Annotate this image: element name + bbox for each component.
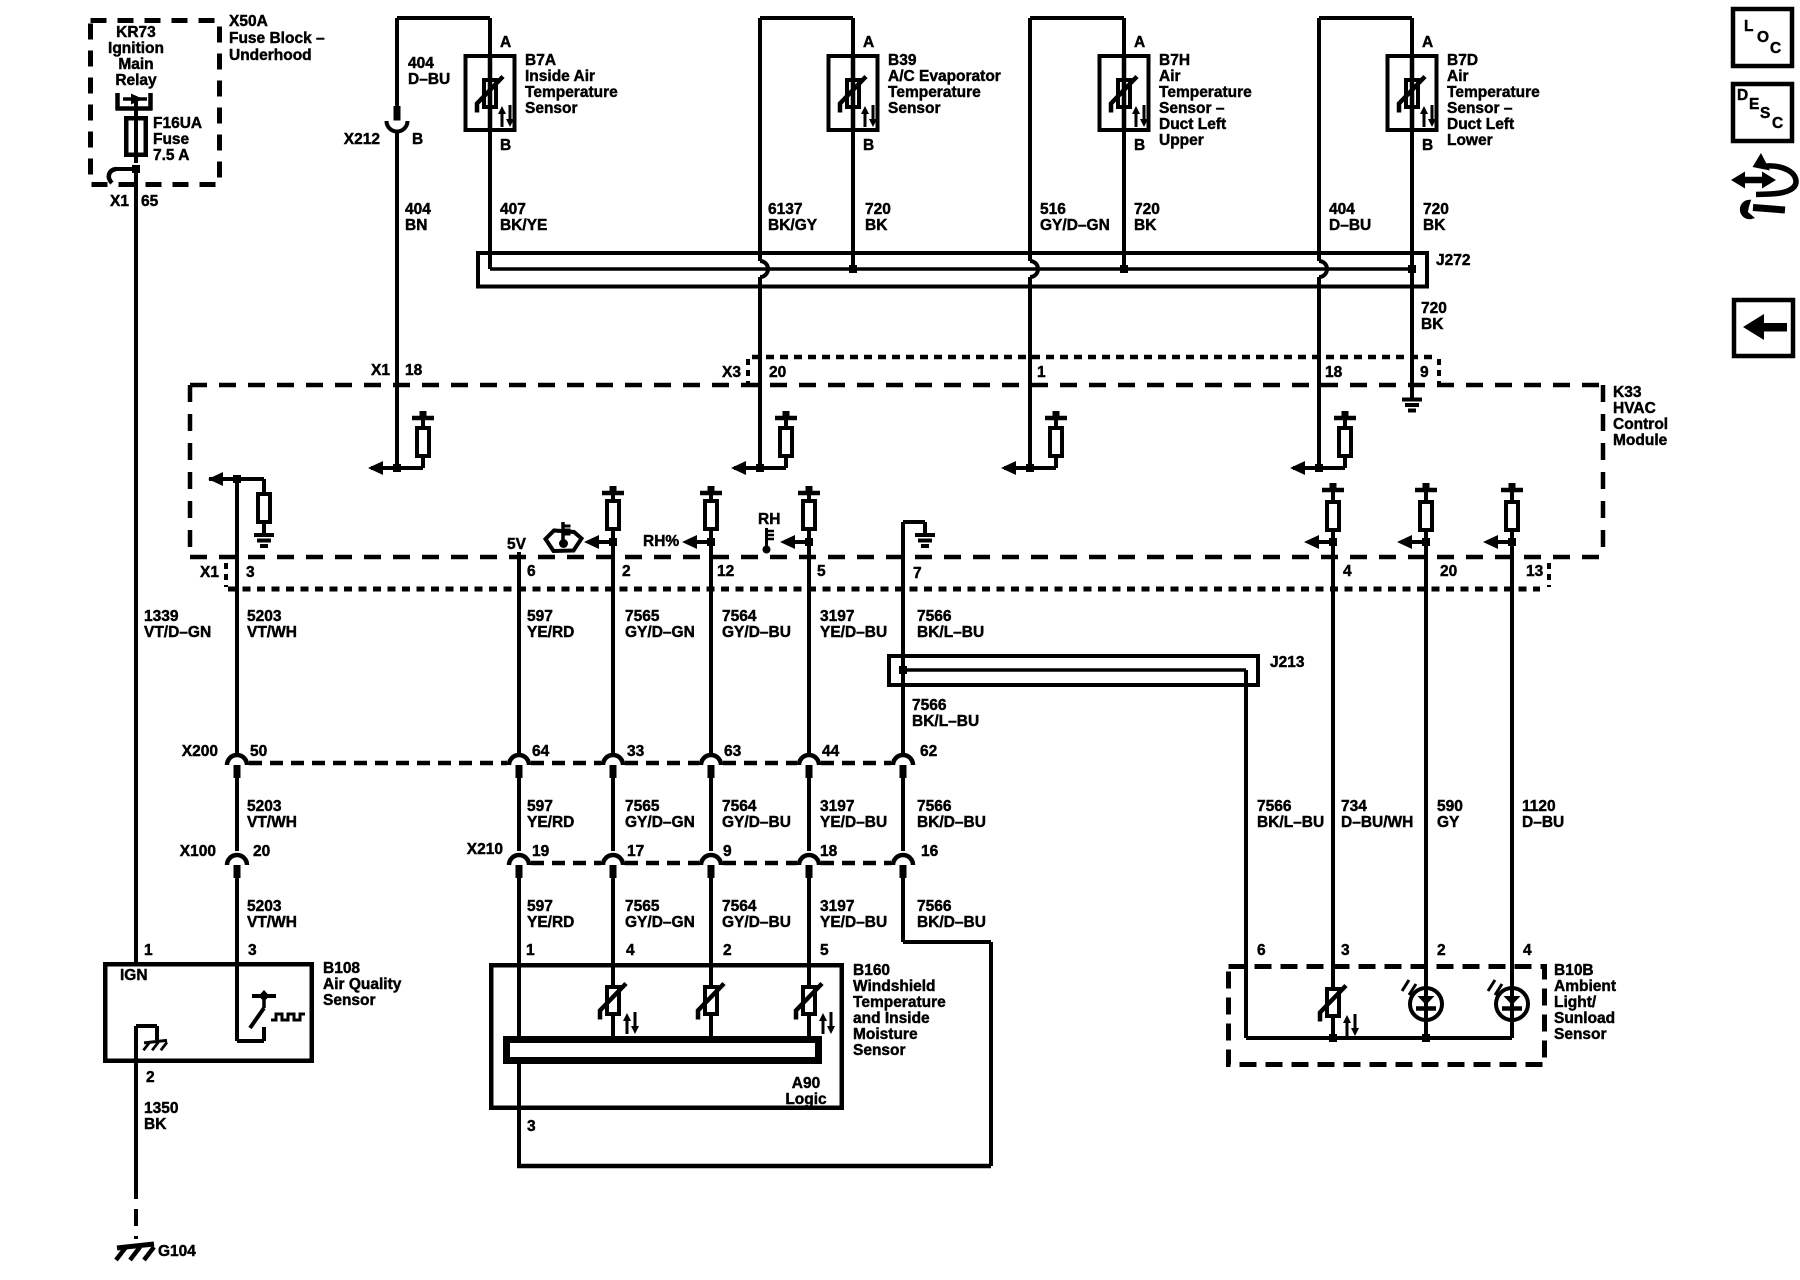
svg-text:G104: G104 (158, 1243, 196, 1260)
svg-text:Air: Air (1447, 68, 1469, 85)
svg-text:404: 404 (405, 201, 431, 218)
svg-text:B: B (412, 131, 423, 148)
wire B7H pin A (1122, 18, 1126, 54)
wire 597 YE/RD middle (517, 778, 521, 851)
svg-text:64: 64 (532, 743, 550, 760)
input w/ pull-up X3-18 (1317, 385, 1321, 468)
svg-text:and Inside: and Inside (853, 1010, 930, 1027)
component B10B dashed box (1229, 967, 1545, 1065)
svg-text:1: 1 (144, 942, 153, 959)
svg-text:17: 17 (627, 843, 644, 860)
temperature sensor B7A (466, 56, 515, 130)
pull-down w/ ground X1-3 (209, 477, 264, 481)
wire 404 D-BU right top corner (1319, 16, 1412, 20)
svg-text:A/C Evaporator: A/C Evaporator (888, 68, 1001, 85)
svg-text:7564: 7564 (722, 798, 757, 815)
inline connector X212 (394, 106, 401, 121)
svg-text:C: C (1772, 115, 1783, 132)
component B160 box (491, 965, 842, 1108)
svg-text:Sensor –: Sensor – (1447, 100, 1513, 117)
svg-text:Duct Left: Duct Left (1447, 116, 1514, 133)
svg-text:720: 720 (1134, 201, 1160, 218)
svg-text:13: 13 (1526, 563, 1544, 580)
svg-text:7566: 7566 (917, 898, 952, 915)
thermistor symbol B7D (1406, 80, 1418, 107)
svg-text:YE/RD: YE/RD (527, 914, 574, 931)
wire 720 BK to ground pin (1410, 269, 1414, 385)
svg-text:3197: 3197 (820, 798, 854, 815)
svg-text:7566: 7566 (1257, 798, 1292, 815)
svg-text:GY/D–GN: GY/D–GN (625, 914, 695, 931)
wire 734 D-BU/WH (1331, 557, 1335, 964)
svg-text:5: 5 (820, 942, 829, 959)
connector X200 pin 62 (893, 755, 913, 765)
svg-text:YE/RD: YE/RD (527, 624, 574, 641)
svg-text:GY/D–GN: GY/D–GN (1040, 217, 1110, 234)
svg-text:19: 19 (532, 843, 550, 860)
wire 7564 GY/D-BU lower (709, 878, 713, 985)
svg-text:Air: Air (1159, 68, 1181, 85)
svg-text:Upper: Upper (1159, 132, 1204, 149)
svg-text:20: 20 (1440, 563, 1457, 580)
svg-text:X200: X200 (182, 743, 218, 760)
wire B7D pin A (1410, 18, 1414, 54)
svg-text:YE/D–BU: YE/D–BU (820, 624, 887, 641)
svg-text:3: 3 (248, 942, 257, 959)
svg-text:GY/D–BU: GY/D–BU (722, 624, 791, 641)
svg-text:Underhood: Underhood (229, 47, 312, 64)
connector X210 line (531, 861, 601, 866)
connector X100 pin 20 (227, 855, 247, 865)
svg-text:6: 6 (527, 563, 536, 580)
svg-text:9: 9 (723, 843, 732, 860)
svg-text:KR73: KR73 (116, 24, 156, 41)
wire 6137 BK/GY top corner (760, 16, 853, 20)
icon LOC box (1733, 9, 1792, 66)
junction dot B10B thermistor (1329, 1034, 1337, 1042)
svg-text:VT/WH: VT/WH (247, 914, 297, 931)
svg-text:A: A (500, 34, 511, 51)
svg-text:Sunload: Sunload (1554, 1010, 1615, 1027)
wire 7566 BK/D-BU middle (901, 778, 905, 851)
svg-text:BK/L–BU: BK/L–BU (917, 624, 984, 641)
B10B photodiode 2 (1424, 964, 1428, 1038)
svg-text:BK/D–BU: BK/D–BU (917, 814, 986, 831)
svg-text:Moisture: Moisture (853, 1026, 918, 1043)
svg-text:404: 404 (408, 55, 434, 72)
junction dot J272 B39 (849, 265, 857, 273)
temperature sensor B39 (829, 56, 878, 130)
connector X210 pin 18 (799, 855, 819, 865)
svg-text:B: B (500, 137, 511, 154)
svg-text:7.5 A: 7.5 A (153, 147, 189, 164)
B108 heater square wave (271, 1014, 305, 1020)
svg-text:2: 2 (723, 942, 732, 959)
input pin 2 w/ pull-up (602, 491, 624, 496)
icon transfer arrows and wrench (1744, 177, 1763, 184)
wire 407 BK/YE (488, 132, 492, 269)
thermometer icon RH (765, 528, 768, 546)
junction dot J213 (899, 666, 907, 674)
svg-text:D: D (1737, 87, 1748, 104)
svg-text:50: 50 (250, 743, 267, 760)
wire 720 BK from B7H (1122, 132, 1126, 269)
svg-text:590: 590 (1437, 798, 1463, 815)
component B108 box (105, 964, 312, 1061)
wire 5203 VT/WH lower (235, 878, 239, 962)
svg-text:33: 33 (627, 743, 645, 760)
wire 516 GY/D-GN (1028, 18, 1032, 261)
svg-text:J272: J272 (1436, 252, 1470, 269)
svg-text:720: 720 (865, 201, 891, 218)
B108 internal ground (134, 1026, 138, 1063)
thermistor symbol B7A (484, 80, 496, 107)
svg-text:BK/D–BU: BK/D–BU (917, 914, 986, 931)
svg-text:GY/D–GN: GY/D–GN (625, 624, 695, 641)
svg-text:Logic: Logic (785, 1091, 827, 1108)
svg-text:Windshield: Windshield (853, 978, 936, 995)
svg-text:1350: 1350 (144, 1100, 178, 1117)
output pin 4 w/ pull-up (1322, 488, 1344, 493)
input w/ pull-up X3-1 (1028, 385, 1032, 468)
ground X3-9 internal (1410, 385, 1414, 399)
svg-text:5: 5 (817, 563, 826, 580)
icon DESC box (1733, 84, 1792, 141)
svg-text:S: S (1760, 105, 1770, 122)
wire 720 BK from B7D (1410, 132, 1414, 269)
wire 404 BN (395, 132, 399, 386)
relay KR73 box (fuse block outline) (91, 21, 220, 185)
svg-text:Sensor: Sensor (323, 992, 376, 1009)
svg-text:Light/: Light/ (1554, 994, 1597, 1011)
svg-text:B: B (1134, 137, 1145, 154)
svg-text:Duct Left: Duct Left (1159, 116, 1226, 133)
svg-text:404: 404 (1329, 201, 1355, 218)
svg-text:L: L (1744, 18, 1753, 35)
connector X210 pin 9 (701, 855, 721, 865)
svg-text:7565: 7565 (625, 608, 660, 625)
svg-text:A90: A90 (792, 1075, 820, 1092)
connector X200 pin 44 (799, 755, 819, 765)
svg-text:Control: Control (1613, 416, 1668, 433)
svg-text:720: 720 (1421, 300, 1447, 317)
icon back arrow box (1734, 300, 1793, 356)
svg-text:Ignition: Ignition (108, 40, 164, 57)
wire 3197 YE/D-BU lower (807, 878, 811, 985)
svg-text:B: B (863, 137, 874, 154)
svg-text:65: 65 (141, 193, 159, 210)
svg-text:Fuse: Fuse (153, 131, 190, 148)
wire 7565 GY/D-GN lower (611, 878, 615, 985)
svg-text:D–BU: D–BU (408, 71, 450, 88)
svg-text:A: A (863, 34, 874, 51)
svg-text:X1: X1 (110, 193, 129, 210)
output pin 20 w/ pull-up (1415, 488, 1437, 493)
wire 590 GY (1424, 557, 1428, 964)
connector X3 line (752, 355, 1437, 360)
svg-text:B160: B160 (853, 962, 890, 979)
relay output terminal hook (115, 167, 136, 171)
svg-text:VT/D–GN: VT/D–GN (144, 624, 211, 641)
junction dot J272 B7H (1120, 265, 1128, 273)
svg-text:Sensor: Sensor (1554, 1026, 1607, 1043)
svg-text:B7A: B7A (525, 52, 556, 69)
svg-text:Air Quality: Air Quality (323, 976, 402, 993)
svg-text:7565: 7565 (625, 798, 660, 815)
svg-text:Temperature: Temperature (888, 84, 981, 101)
svg-text:20: 20 (253, 843, 270, 860)
svg-text:Module: Module (1613, 432, 1668, 449)
svg-text:7564: 7564 (722, 898, 757, 915)
B160 thermistor 1 (611, 983, 615, 987)
svg-text:2: 2 (1437, 942, 1446, 959)
connector X1 line bottom (228, 587, 1540, 592)
thermistor symbol B7H (1118, 80, 1130, 107)
svg-text:Temperature: Temperature (1159, 84, 1252, 101)
svg-text:16: 16 (921, 843, 939, 860)
wire 3197 YE/D-BU middle (807, 778, 811, 851)
svg-text:44: 44 (822, 743, 840, 760)
connector X210 pin 17 (603, 855, 623, 865)
svg-text:B: B (1422, 137, 1433, 154)
svg-text:E: E (1749, 96, 1759, 113)
B10B pin 6 wire (1244, 964, 1248, 1038)
input w/ pull-up X3-20 (758, 385, 762, 468)
svg-text:Lower: Lower (1447, 132, 1493, 149)
input pin 12 w/ pull-up (700, 491, 722, 496)
wire 720 BK from B39 (851, 132, 855, 269)
svg-text:7565: 7565 (625, 898, 660, 915)
connector X210 pin 19 (509, 855, 529, 865)
wire relay to fuse (134, 99, 138, 163)
svg-text:D–BU/WH: D–BU/WH (1341, 814, 1413, 831)
svg-text:Temperature: Temperature (853, 994, 946, 1011)
svg-text:12: 12 (717, 563, 734, 580)
svg-text:5203: 5203 (247, 608, 282, 625)
svg-text:K33: K33 (1613, 384, 1642, 401)
relay KR73 contact (115, 93, 120, 110)
wire 1339 VT/D-GN vertical (134, 169, 138, 962)
fuse F16UA (126, 118, 146, 155)
svg-text:18: 18 (1325, 364, 1343, 381)
svg-text:B39: B39 (888, 52, 917, 69)
svg-text:4: 4 (1343, 563, 1352, 580)
svg-text:C: C (1770, 40, 1781, 57)
svg-text:B7H: B7H (1159, 52, 1190, 69)
svg-text:5203: 5203 (247, 798, 282, 815)
svg-text:Main: Main (118, 56, 153, 73)
svg-text:A: A (1134, 34, 1145, 51)
svg-text:RH%: RH% (643, 533, 679, 550)
svg-text:YE/D–BU: YE/D–BU (820, 814, 887, 831)
svg-text:7566: 7566 (917, 608, 952, 625)
temperature sensor B7D (1388, 56, 1437, 130)
svg-text:1: 1 (1037, 364, 1046, 381)
logic block A90 (507, 1040, 819, 1061)
svg-text:BN: BN (405, 217, 427, 234)
svg-text:X50A: X50A (229, 13, 268, 30)
connector X200 pin 33 (603, 755, 623, 765)
input w/ pull-up X1-18 (395, 385, 399, 468)
svg-text:7566: 7566 (912, 697, 947, 714)
svg-text:B7D: B7D (1447, 52, 1478, 69)
B10B bottom bus wire (1246, 1036, 1512, 1040)
svg-text:Fuse Block –: Fuse Block – (229, 30, 325, 47)
svg-text:Sensor: Sensor (888, 100, 941, 117)
svg-text:YE/RD: YE/RD (527, 814, 574, 831)
svg-text:F16UA: F16UA (153, 115, 202, 132)
svg-text:720: 720 (1423, 201, 1449, 218)
svg-text:Inside Air: Inside Air (525, 68, 595, 85)
svg-text:A: A (1422, 34, 1433, 51)
splice J272 bus (478, 253, 1427, 287)
svg-text:597: 597 (527, 798, 553, 815)
svg-text:RH: RH (758, 511, 780, 528)
junction dot J272 B7D (1408, 265, 1416, 273)
svg-text:18: 18 (820, 843, 838, 860)
svg-text:BK/L–BU: BK/L–BU (912, 713, 979, 730)
svg-text:BK: BK (1421, 316, 1444, 333)
svg-text:2: 2 (622, 563, 631, 580)
wire 7565 GY/D-GN upper (611, 557, 615, 753)
svg-text:BK/GY: BK/GY (768, 217, 818, 234)
svg-text:7: 7 (913, 565, 922, 582)
B108 sensor element (235, 962, 239, 1041)
svg-text:BK/YE: BK/YE (500, 217, 547, 234)
svg-text:20: 20 (769, 364, 786, 381)
svg-text:4: 4 (626, 942, 635, 959)
svg-text:IGN: IGN (120, 967, 148, 984)
wire 597 YE/RD lower (517, 878, 521, 963)
svg-text:3: 3 (527, 1118, 536, 1135)
wire 7566 BK/D-BU lower (901, 878, 905, 942)
temperature sensor B7H (1100, 56, 1149, 130)
svg-text:3197: 3197 (820, 608, 854, 625)
svg-text:Sensor: Sensor (525, 100, 578, 117)
wire 5203 VT/WH upper (235, 557, 239, 753)
svg-text:Relay: Relay (115, 72, 157, 89)
connector X200 line (249, 761, 507, 766)
wire 597 YE/RD upper (517, 557, 521, 753)
svg-text:YE/D–BU: YE/D–BU (820, 914, 887, 931)
svg-text:734: 734 (1341, 798, 1367, 815)
svg-text:VT/WH: VT/WH (247, 814, 297, 831)
wire 7564 GY/D-BU middle (709, 778, 713, 851)
output pin 13 w/ pull-up (1501, 488, 1523, 493)
svg-text:BK/L–BU: BK/L–BU (1257, 814, 1324, 831)
connector X200 pin 63 (701, 755, 721, 765)
svg-text:1339: 1339 (144, 608, 179, 625)
svg-text:B10B: B10B (1554, 962, 1594, 979)
svg-text:62: 62 (920, 743, 937, 760)
windshield temperature icon (546, 531, 582, 552)
svg-text:7566: 7566 (917, 798, 952, 815)
svg-text:Temperature: Temperature (525, 84, 618, 101)
wire 1350 BK (134, 1063, 138, 1182)
svg-text:X1: X1 (371, 362, 390, 379)
B160 thermistor 3 (803, 987, 815, 1014)
connector X210 pin 16 (893, 855, 913, 865)
svg-text:9: 9 (1420, 364, 1429, 381)
B10B thermistor (1331, 964, 1335, 987)
svg-text:J213: J213 (1270, 654, 1305, 671)
input pin 5 w/ pull-up (798, 491, 820, 496)
svg-text:407: 407 (500, 201, 526, 218)
wire B39 pin A (851, 18, 855, 54)
wire 5203 VT/WH middle (235, 778, 239, 851)
B160 thermistor 2 (705, 987, 717, 1014)
svg-text:3: 3 (246, 564, 255, 581)
wire B7A pin A (488, 18, 492, 54)
svg-text:2: 2 (146, 1069, 155, 1086)
B10B photodiode 4 (1510, 964, 1514, 1038)
svg-text:X1: X1 (200, 564, 219, 581)
svg-text:7564: 7564 (722, 608, 757, 625)
svg-text:Ambient: Ambient (1554, 978, 1616, 995)
svg-text:1: 1 (526, 942, 535, 959)
wire 404 D-BU right (1317, 18, 1321, 261)
wire 7565 GY/D-GN middle (611, 778, 615, 851)
wire 7566 BK/L-BU upper (901, 557, 905, 753)
ground G104 (117, 1244, 154, 1248)
B160 wire pin 1 to logic (517, 963, 521, 1166)
wire 516 GY/D-GN top corner (1030, 16, 1124, 20)
svg-text:5203: 5203 (247, 898, 282, 915)
thermistor symbol B39 (847, 80, 859, 107)
svg-text:X3: X3 (722, 364, 741, 381)
svg-text:BK: BK (144, 1116, 167, 1133)
svg-text:1120: 1120 (1522, 798, 1556, 815)
svg-text:516: 516 (1040, 201, 1066, 218)
svg-text:597: 597 (527, 898, 553, 915)
svg-text:X100: X100 (180, 843, 216, 860)
svg-text:Temperature: Temperature (1447, 84, 1540, 101)
svg-text:Sensor: Sensor (853, 1042, 906, 1059)
svg-text:VT/WH: VT/WH (247, 624, 297, 641)
svg-text:GY: GY (1437, 814, 1460, 831)
svg-text:3197: 3197 (820, 898, 854, 915)
wire 7564 GY/D-BU upper (709, 557, 713, 753)
wire 1120 D-BU (1510, 557, 1514, 964)
wire 3197 YE/D-BU upper (807, 557, 811, 753)
svg-text:4: 4 (1523, 942, 1532, 959)
wire 6137 BK/GY (758, 18, 762, 261)
svg-text:O: O (1757, 29, 1769, 46)
svg-text:18: 18 (405, 362, 423, 379)
svg-text:D–BU: D–BU (1522, 814, 1564, 831)
svg-text:BK: BK (865, 217, 888, 234)
connector X200 pin 50 (227, 755, 247, 765)
svg-text:GY/D–GN: GY/D–GN (625, 814, 695, 831)
svg-text:5V: 5V (507, 536, 527, 553)
wire 7566 BK/L-BU to B10B (1244, 670, 1248, 964)
svg-text:6137: 6137 (768, 201, 802, 218)
svg-text:X212: X212 (344, 131, 380, 148)
svg-text:63: 63 (724, 743, 742, 760)
svg-text:GY/D–BU: GY/D–BU (722, 814, 791, 831)
svg-text:D–BU: D–BU (1329, 217, 1371, 234)
svg-text:6: 6 (1257, 942, 1266, 959)
splice J213 bus (889, 656, 1258, 685)
svg-text:X210: X210 (467, 841, 503, 858)
ground pin 7 internal (901, 522, 905, 557)
svg-text:BK: BK (1134, 217, 1157, 234)
svg-text:597: 597 (527, 608, 553, 625)
svg-text:GY/D–BU: GY/D–BU (722, 914, 791, 931)
connector X200 pin 64 (509, 755, 529, 765)
svg-text:HVAC: HVAC (1613, 400, 1656, 417)
svg-text:BK: BK (1423, 217, 1446, 234)
